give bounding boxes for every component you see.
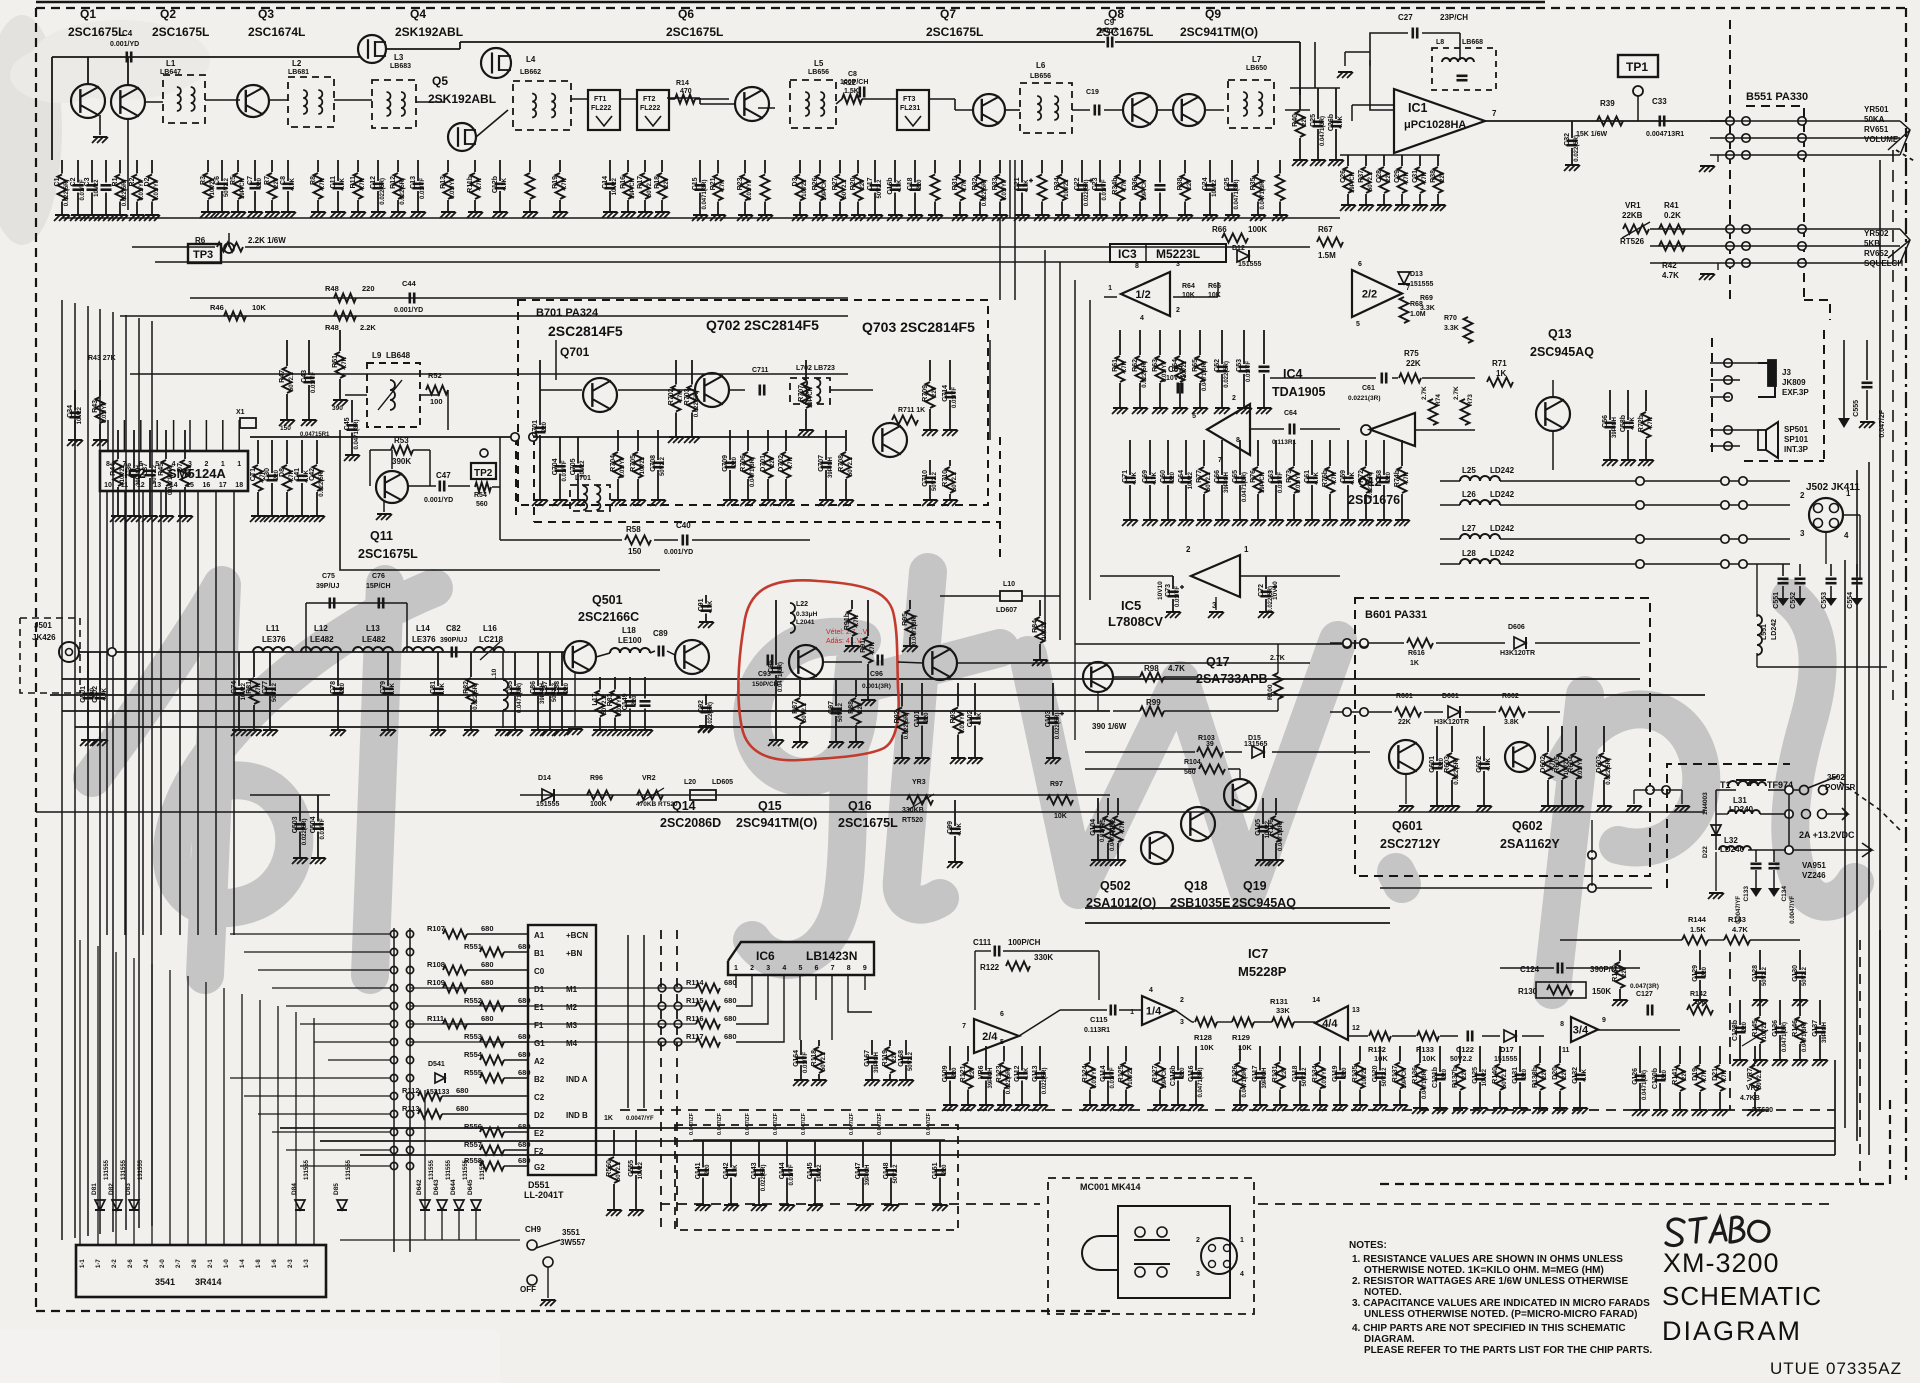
svg-text:C145: C145 xyxy=(807,1162,814,1179)
svg-text:330KB: 330KB xyxy=(902,807,924,814)
capacitor C501 C502 xyxy=(87,652,89,691)
resistor R22 xyxy=(842,95,862,104)
svg-text:R125: R125 xyxy=(1118,1065,1125,1082)
svg-text:L5: L5 xyxy=(814,59,824,68)
svg-text:0.047/ZF: 0.047/ZF xyxy=(717,1112,723,1135)
svg-text:C40: C40 xyxy=(676,521,691,530)
b601 mid grounds xyxy=(1646,786,1654,794)
svg-text:C708: C708 xyxy=(650,455,657,472)
Q13 side columns xyxy=(1609,390,1611,420)
switch S551 xyxy=(527,1240,537,1250)
svg-text:10V22: 10V22 xyxy=(1188,471,1194,489)
svg-text:R117: R117 xyxy=(686,1032,704,1041)
svg-text:0.001/YD: 0.001/YD xyxy=(110,41,139,48)
svg-text:220: 220 xyxy=(942,1164,948,1175)
coil L12 xyxy=(301,647,341,652)
svg-text:Q601: Q601 xyxy=(1392,819,1423,833)
svg-text:131555: 131555 xyxy=(304,1159,310,1180)
svg-text:390 1/6W: 390 1/6W xyxy=(1092,722,1127,731)
svg-text:Q4: Q4 xyxy=(410,7,426,21)
svg-text:IC6: IC6 xyxy=(756,949,775,963)
svg-text:Q19: Q19 xyxy=(1243,879,1267,893)
coil L20 xyxy=(690,790,716,800)
svg-text:C552: C552 xyxy=(1790,592,1797,609)
wire bus xyxy=(62,217,1340,219)
svg-text:C104: C104 xyxy=(1090,819,1097,836)
svg-text:C4: C4 xyxy=(122,29,133,38)
svg-text:50V2.2: 50V2.2 xyxy=(1382,1067,1388,1087)
wire b701 v xyxy=(555,340,557,380)
transistor Q701 xyxy=(583,378,617,412)
svg-text:M1: M1 xyxy=(566,985,578,994)
IC2 side components xyxy=(257,440,259,464)
svg-text:2.7K: 2.7K xyxy=(1453,386,1460,400)
svg-text:R132: R132 xyxy=(1368,1045,1386,1054)
svg-text:C33: C33 xyxy=(1652,97,1667,106)
svg-text:2. RESISTOR WATTAGES ARE 1/6W: 2. RESISTOR WATTAGES ARE 1/6W UNLESS OTH… xyxy=(1352,1276,1628,1287)
svg-text:10V22: 10V22 xyxy=(1212,179,1218,197)
capacitor C99 col xyxy=(954,800,956,826)
svg-text:R84: R84 xyxy=(1032,620,1039,633)
svg-text:C601: C601 xyxy=(1429,756,1436,773)
svg-text:R66: R66 xyxy=(1212,225,1227,234)
svg-text:220: 220 xyxy=(1282,1067,1288,1078)
left res R43 xyxy=(99,380,101,396)
wire xyxy=(1205,109,1224,111)
svg-text:3: 3 xyxy=(1176,261,1180,268)
svg-text:SCHEMATIC: SCHEMATIC xyxy=(1662,1281,1822,1311)
svg-text:R36: R36 xyxy=(1132,177,1139,190)
IC2 top pin stubs xyxy=(107,420,109,451)
svg-text:Q3: Q3 xyxy=(258,7,274,21)
border right dashed vertical xyxy=(1905,8,1907,160)
svg-text:39P/CH: 39P/CH xyxy=(240,178,246,199)
svg-text:4.7K: 4.7K xyxy=(1350,471,1356,484)
coil L5 box xyxy=(790,80,836,128)
svg-text:C130: C130 xyxy=(1792,965,1799,982)
svg-text:2SC1675L: 2SC1675L xyxy=(358,547,418,561)
svg-text:UNLESS OTHERWISE NOTED. (P=MIC: UNLESS OTHERWISE NOTED. (P=MICRO-MICRO F… xyxy=(1364,1309,1637,1320)
testpoint TP1 xyxy=(1618,55,1658,77)
diode D13 xyxy=(1398,272,1410,284)
coil L18 xyxy=(610,648,650,653)
svg-text:C121b: C121b xyxy=(1432,1067,1439,1088)
wire box q11 xyxy=(340,430,660,570)
svg-text:R115: R115 xyxy=(686,996,704,1005)
svg-text:C111: C111 xyxy=(973,938,992,947)
svg-text:C555: C555 xyxy=(628,1160,635,1177)
svg-text:R43 27K: R43 27K xyxy=(88,355,116,362)
svg-text:0.022(5R): 0.022(5R) xyxy=(761,1165,767,1192)
svg-text:50V2.2: 50V2.2 xyxy=(660,456,666,476)
svg-text:C22: C22 xyxy=(1074,177,1081,190)
svg-text:470: 470 xyxy=(680,88,692,95)
svg-text:50V2.2: 50V2.2 xyxy=(838,702,844,722)
svg-text:4.7K: 4.7K xyxy=(342,356,348,369)
svg-text:0.001(3R): 0.001(3R) xyxy=(862,683,891,690)
IC D551 box xyxy=(528,925,596,1175)
svg-text:9: 9 xyxy=(863,965,867,972)
wire ic3 xyxy=(1173,296,1218,298)
svg-text:100: 100 xyxy=(430,397,443,406)
svg-text:10K: 10K xyxy=(1054,813,1067,820)
svg-text:LB650: LB650 xyxy=(1246,65,1267,72)
svg-text:C61: C61 xyxy=(1362,385,1375,392)
svg-text:R144: R144 xyxy=(1688,915,1707,924)
svg-text:220: 220 xyxy=(1442,1068,1448,1079)
svg-text:39P/CH: 39P/CH xyxy=(1612,417,1618,438)
svg-text:23P/CH: 23P/CH xyxy=(1440,13,1468,22)
svg-text:YR502: YR502 xyxy=(1864,229,1889,238)
transistor Q4b fet xyxy=(481,48,511,78)
svg-text:0.0471(3R): 0.0471(3R) xyxy=(354,420,360,450)
wire opamp2 xyxy=(1175,1010,1192,1022)
transistor Q9 xyxy=(1173,94,1205,126)
svg-text:7: 7 xyxy=(1492,109,1497,118)
svg-text:330K: 330K xyxy=(1034,953,1053,962)
svg-text:LD242: LD242 xyxy=(1771,619,1778,640)
svg-text:220: 220 xyxy=(1342,1067,1348,1078)
svg-text:JK809: JK809 xyxy=(1782,378,1806,387)
svg-text:IC4: IC4 xyxy=(1283,367,1303,381)
svg-text:220: 220 xyxy=(1542,1068,1548,1079)
resistor R47 col xyxy=(286,340,288,366)
svg-text:C704: C704 xyxy=(552,458,559,475)
svg-text:220: 220 xyxy=(924,712,930,723)
svg-text:R52: R52 xyxy=(428,371,442,380)
transistor Q703 xyxy=(873,423,907,457)
resistor R48b xyxy=(334,312,356,321)
svg-text:VOLUME: VOLUME xyxy=(1864,135,1899,144)
svg-text:YR501: YR501 xyxy=(1864,105,1889,114)
svg-text:R38: R38 xyxy=(1430,170,1437,183)
svg-text:UTUE 07335AZ: UTUE 07335AZ xyxy=(1770,1359,1902,1378)
svg-text:C89: C89 xyxy=(653,629,668,638)
svg-text:0.01/YF: 0.01/YF xyxy=(562,460,568,481)
svg-text:LD607: LD607 xyxy=(996,607,1017,614)
svg-text:R116: R116 xyxy=(686,1014,704,1023)
svg-text:680: 680 xyxy=(481,978,494,987)
svg-text:YR3: YR3 xyxy=(912,779,926,786)
svg-text:R127: R127 xyxy=(1152,1065,1159,1082)
svg-text:C164: C164 xyxy=(793,1050,800,1067)
svg-text:R48: R48 xyxy=(325,284,339,293)
svg-text:4.7K: 4.7K xyxy=(1702,1069,1708,1082)
svg-text:LB683: LB683 xyxy=(390,63,411,70)
junction xyxy=(108,648,116,656)
wire b551 right dash xyxy=(1804,300,1830,320)
svg-text:C78: C78 xyxy=(330,681,337,694)
svg-text:220: 220 xyxy=(952,1067,958,1078)
svg-text:0.047/ZF: 0.047/ZF xyxy=(926,1112,932,1135)
svg-text:220: 220 xyxy=(917,179,923,190)
diode D606 xyxy=(1514,637,1526,649)
svg-text:D1: D1 xyxy=(534,985,545,994)
svg-text:B1: B1 xyxy=(534,949,545,958)
svg-text:4.7K: 4.7K xyxy=(1486,757,1492,770)
svg-text:R13: R13 xyxy=(440,176,447,189)
connector J501 xyxy=(59,642,79,662)
wire ic1 out xyxy=(1485,120,1730,122)
svg-text:C87: C87 xyxy=(542,681,549,694)
svg-text:R102: R102 xyxy=(1110,819,1117,836)
svg-text:5: 5 xyxy=(798,965,802,972)
svg-text:15P/CH: 15P/CH xyxy=(366,583,391,590)
svg-text:C27: C27 xyxy=(1398,13,1413,22)
wire ic1 gnd c27 xyxy=(1369,60,1371,66)
svg-text:C0: C0 xyxy=(534,967,545,976)
svg-text:151555: 151555 xyxy=(1410,281,1433,288)
svg-text:Q602: Q602 xyxy=(1512,819,1543,833)
svg-text:680: 680 xyxy=(518,996,531,1005)
svg-text:L13: L13 xyxy=(366,624,380,633)
svg-text:131555: 131555 xyxy=(446,1159,452,1180)
svg-text:0.022(5R): 0.022(5R) xyxy=(1042,1068,1048,1095)
svg-text:0.01/YF: 0.01/YF xyxy=(102,402,108,423)
svg-text:XM-3200: XM-3200 xyxy=(1663,1248,1780,1278)
svg-text:39P/CH: 39P/CH xyxy=(1224,472,1230,493)
junction col right xyxy=(1724,359,1732,367)
top row component columns xyxy=(61,160,63,174)
IC6 dashed verticals xyxy=(660,930,662,1230)
capacitor C73 col xyxy=(1172,576,1174,589)
resistor R6 xyxy=(217,243,243,252)
svg-text:T1: T1 xyxy=(1720,780,1731,790)
svg-text:VR5: VR5 xyxy=(1100,819,1107,833)
wire ic4 bus xyxy=(1270,377,1376,379)
svg-text:VR6: VR6 xyxy=(978,1065,985,1079)
svg-text:2SA733APB: 2SA733APB xyxy=(1196,672,1268,686)
svg-text:3.8K: 3.8K xyxy=(1504,719,1519,726)
svg-text:151555: 151555 xyxy=(1494,1056,1517,1063)
wire right diag xyxy=(1896,150,1916,162)
diode D22 xyxy=(1711,825,1721,835)
op-amp squelch xyxy=(1207,404,1250,455)
svg-text:R108: R108 xyxy=(427,960,445,969)
resistor R96 xyxy=(587,791,613,800)
svg-text:H3K120TR: H3K120TR xyxy=(1500,650,1535,657)
svg-text:OFF: OFF xyxy=(520,1285,536,1294)
wire opamp3 xyxy=(1217,1021,1232,1023)
svg-text:220: 220 xyxy=(1702,966,1708,977)
svg-text:39P/CH: 39P/CH xyxy=(874,1052,880,1073)
resistor R91 col xyxy=(867,600,869,636)
svg-text:D603: D603 xyxy=(1596,756,1603,773)
svg-text:R706: R706 xyxy=(740,455,747,472)
svg-text:C12b: C12b xyxy=(492,176,499,193)
svg-text:D551: D551 xyxy=(528,1180,550,1190)
svg-text:10K: 10K xyxy=(1182,292,1195,299)
svg-text:0.022(5R): 0.022(5R) xyxy=(400,178,406,205)
svg-text:R75b: R75b xyxy=(1322,470,1329,487)
svg-text:L17: L17 xyxy=(592,693,599,705)
wire xyxy=(1115,41,1300,43)
capacitor C47 xyxy=(438,481,441,492)
ground ic5 xyxy=(1215,597,1217,610)
svg-text:131555: 131555 xyxy=(480,1159,486,1180)
svg-text:0.01/YF: 0.01/YF xyxy=(952,387,958,408)
svg-text:2SC2814F5: 2SC2814F5 xyxy=(548,323,623,339)
svg-text:R133: R133 xyxy=(1416,1045,1434,1054)
B551 volume rows xyxy=(1726,117,1734,125)
svg-text:L10: L10 xyxy=(1003,581,1015,588)
svg-text:33K: 33K xyxy=(1276,1006,1290,1015)
testpoint TP3 xyxy=(188,244,221,263)
svg-text:680: 680 xyxy=(518,1122,531,1131)
svg-text:22K: 22K xyxy=(1398,719,1411,726)
svg-text:IC3: IC3 xyxy=(1118,247,1137,261)
svg-text:FL222: FL222 xyxy=(640,105,660,112)
svg-text:0.001/YD: 0.001/YD xyxy=(664,549,693,556)
svg-text:3/4: 3/4 xyxy=(1573,1025,1589,1037)
wire bottom right dashed vert xyxy=(1729,952,1731,1110)
svg-text:7: 7 xyxy=(962,1023,966,1030)
svg-text:R139: R139 xyxy=(1612,965,1619,982)
transistor stage xyxy=(923,646,957,680)
svg-text:R601: R601 xyxy=(1396,693,1413,700)
svg-text:C31: C31 xyxy=(1412,170,1419,183)
svg-text:680: 680 xyxy=(518,1050,531,1059)
svg-text:R107: R107 xyxy=(427,924,445,933)
svg-text:4.7K: 4.7K xyxy=(502,177,508,190)
box dashed around caps xyxy=(675,1125,958,1230)
matrix extra verticals xyxy=(424,1090,426,1240)
wire xyxy=(386,48,460,50)
svg-text:J502 JK411: J502 JK411 xyxy=(1806,482,1860,493)
capacitor C115 xyxy=(1110,1005,1113,1016)
svg-text:0.01/YF: 0.01/YF xyxy=(311,372,317,393)
svg-text:R129: R129 xyxy=(1232,1033,1250,1042)
svg-text:0.022(5R): 0.022(5R) xyxy=(1006,1068,1012,1095)
svg-text:4.7K: 4.7K xyxy=(1024,179,1030,192)
resistor R142 xyxy=(1687,1006,1713,1015)
svg-text:C96: C96 xyxy=(870,671,883,678)
coil L19 xyxy=(1000,591,1022,601)
svg-text:220: 220 xyxy=(1180,1067,1186,1078)
svg-text:LB656: LB656 xyxy=(1030,73,1051,80)
capacitor C134 xyxy=(1773,850,1775,862)
resistor R75 xyxy=(1399,374,1421,383)
svg-text:2.7K: 2.7K xyxy=(1421,386,1428,400)
svg-text:10V10: 10V10 xyxy=(1157,581,1164,600)
svg-text:1P/CX: 1P/CX xyxy=(1098,28,1119,35)
svg-text:C6: C6 xyxy=(214,176,221,185)
svg-text:50V2.2: 50V2.2 xyxy=(908,1051,914,1071)
svg-text:C25: C25 xyxy=(1310,114,1317,127)
transistor Q602 xyxy=(1505,742,1535,772)
svg-text:16: 16 xyxy=(203,482,211,489)
svg-text:D22: D22 xyxy=(1702,846,1709,858)
svg-text:220: 220 xyxy=(664,177,670,188)
svg-text:0.33μH: 0.33μH xyxy=(796,611,818,618)
wire ic1 low bus xyxy=(1340,154,1440,156)
svg-text:R551: R551 xyxy=(464,942,482,951)
svg-text:Q18: Q18 xyxy=(1184,879,1208,893)
svg-text:FT1: FT1 xyxy=(594,96,607,103)
svg-text:D85: D85 xyxy=(333,1183,340,1195)
svg-text:3.3K: 3.3K xyxy=(1420,305,1435,312)
svg-text:C120: C120 xyxy=(1372,1065,1379,1082)
capacitor C4 xyxy=(126,52,129,63)
transistor Q1 xyxy=(71,84,105,118)
svg-text:C44: C44 xyxy=(402,279,417,288)
svg-text:L2: L2 xyxy=(292,59,302,68)
svg-text:0.01/YF: 0.01/YF xyxy=(154,179,160,200)
resistor R711 xyxy=(892,416,918,425)
wire xyxy=(1157,109,1173,111)
wire b601 bottom xyxy=(1380,887,1652,889)
svg-text:0.0471(3R): 0.0471(3R) xyxy=(1198,1068,1204,1098)
wire xyxy=(270,99,288,101)
svg-text:R62: R62 xyxy=(1132,359,1139,372)
capacitor C8 xyxy=(858,87,861,98)
svg-text:C75: C75 xyxy=(322,573,335,580)
svg-text:C551: C551 xyxy=(1773,592,1780,609)
capacitor C133 xyxy=(1755,850,1757,862)
svg-text:C114: C114 xyxy=(1100,1065,1107,1081)
svg-text:0.01/YF: 0.01/YF xyxy=(1110,1067,1116,1088)
svg-text:3551: 3551 xyxy=(562,1228,580,1237)
svg-text:D12: D12 xyxy=(1232,245,1245,252)
bottom mid-right clutter xyxy=(1419,1046,1421,1063)
svg-text:R99: R99 xyxy=(1146,698,1161,707)
svg-text:C115: C115 xyxy=(1090,1015,1108,1024)
transistor Q13 xyxy=(1536,397,1570,431)
svg-text:680: 680 xyxy=(518,1156,531,1165)
svg-text:0.01/YF: 0.01/YF xyxy=(803,1052,809,1073)
svg-text:L22: L22 xyxy=(796,601,808,608)
svg-text:13: 13 xyxy=(1352,1007,1360,1014)
svg-text:DIAGRAM.: DIAGRAM. xyxy=(1364,1334,1415,1345)
wire top bus xyxy=(52,56,360,58)
svg-text:680: 680 xyxy=(481,1014,494,1023)
svg-text:F1: F1 xyxy=(534,1021,544,1030)
svg-text:10: 10 xyxy=(104,482,112,489)
svg-text:R27: R27 xyxy=(832,177,839,190)
svg-text:2SC2086D: 2SC2086D xyxy=(660,816,721,830)
svg-text:4.7K: 4.7K xyxy=(1648,416,1654,429)
svg-text:L9: L9 xyxy=(372,351,382,360)
svg-text:4.7K: 4.7K xyxy=(390,682,396,695)
svg-text:L20: L20 xyxy=(684,779,696,786)
svg-text:1: 1 xyxy=(1240,1237,1244,1244)
svg-text:R45: R45 xyxy=(158,463,165,476)
svg-text:0.001/YD: 0.001/YD xyxy=(394,307,423,314)
svg-text:3: 3 xyxy=(1800,529,1805,538)
svg-text:7: 7 xyxy=(831,965,835,972)
svg-text:L1: L1 xyxy=(166,59,176,68)
svg-text:0.022(5R): 0.022(5R) xyxy=(1454,758,1460,785)
svg-text:C64: C64 xyxy=(1178,470,1185,483)
svg-text:0.022(5R): 0.022(5R) xyxy=(708,702,714,729)
svg-text:H3K120TR: H3K120TR xyxy=(1434,719,1469,726)
svg-text:R39: R39 xyxy=(1600,99,1615,108)
wire q501 xyxy=(563,652,565,657)
svg-text:R71: R71 xyxy=(1492,359,1507,368)
svg-text:12: 12 xyxy=(1352,1025,1360,1032)
svg-text:C118: C118 xyxy=(1292,1065,1299,1081)
svg-text:0.01/YF: 0.01/YF xyxy=(1175,586,1181,607)
svg-text:151555: 151555 xyxy=(536,801,559,808)
svg-text:1: 1 xyxy=(237,461,241,468)
svg-text:39P/CH: 39P/CH xyxy=(630,178,636,199)
svg-text:C129: C129 xyxy=(1692,965,1699,982)
svg-text:R74b: R74b xyxy=(1394,470,1401,487)
wire q13 xyxy=(1552,431,1554,470)
svg-text:39P/CH: 39P/CH xyxy=(822,180,828,201)
svg-text:R2: R2 xyxy=(129,177,136,186)
svg-text:2: 2 xyxy=(1186,545,1191,554)
